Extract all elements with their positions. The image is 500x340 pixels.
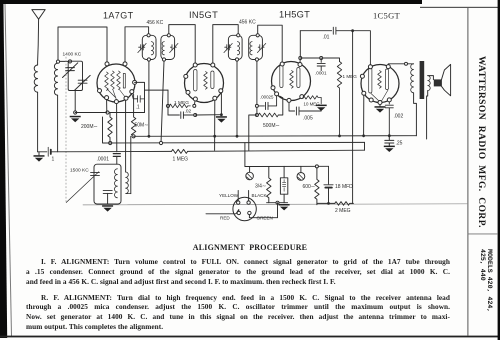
junction cathode ground: [220, 113, 223, 116]
pin 1A7 bottom right: [124, 96, 128, 100]
pin can2 top: [167, 34, 170, 37]
wire can2 bottom to bus2: [161, 61, 164, 143]
capacitor .1 AVC: [132, 94, 145, 103]
wire secondary return: [427, 91, 428, 139]
pin plug red: [237, 211, 240, 214]
speaker cone: [441, 64, 450, 95]
pin 1H5 plate top: [298, 63, 302, 67]
border: top thin line right: [420, 7, 500, 8]
pin 1A7 bottom center: [114, 100, 118, 104]
svg-text:10 MEG: 10 MEG: [304, 102, 321, 107]
pin plug yellow: [237, 201, 240, 204]
battery A cell: [47, 147, 49, 156]
junction .002 bus1: [388, 134, 391, 137]
wire 1C5 plate to output transformer: [388, 63, 413, 66]
junction can1 bus1: [148, 135, 151, 138]
inductor in can3: [237, 42, 239, 55]
svg-text:18 MFD: 18 MFD: [335, 184, 353, 190]
pin 1C5 bottom center: [378, 101, 382, 105]
grid slot inside 1C5: [369, 68, 372, 93]
variable capacitor antenna tuning: [66, 67, 75, 69]
inductor oscillator feedback winding: [126, 172, 131, 194]
node can2 bottom on bus2: [159, 141, 162, 144]
tube 1A7GT envelope: [97, 64, 135, 102]
border: bottom line: [0, 336, 500, 338]
svg-text:456 KC: 456 KC: [147, 20, 164, 26]
junction can3 bus1: [236, 135, 239, 138]
capacitor .00025 detector coupling: [258, 96, 276, 110]
wire 1H5 plate riser: [299, 31, 301, 63]
pin plug green: [248, 211, 251, 214]
resistor 1MEG grid 1N5: [170, 104, 191, 108]
wire L1 bottom to battery bus: [37, 92, 39, 152]
pin 1A7 bottom left: [105, 96, 109, 100]
node loop coil top terminal: [56, 60, 59, 63]
wire bus3 battery line: [51, 150, 172, 152]
inductor oscillator tank winding: [115, 169, 118, 198]
capacitor .0001 plate bypass: [317, 58, 325, 71]
pin can2 bottom: [162, 58, 165, 61]
capacitor padder in osc box: [103, 191, 112, 194]
capacitor trimmer in can1: [139, 45, 145, 50]
wire 1N5 pin to ground node: [220, 92, 222, 115]
IF transformer can 4: [249, 35, 263, 59]
wire feedback winding return to bus1: [130, 136, 132, 193]
wire bus3 right: [188, 150, 365, 151]
node trimmer box input terminal: [68, 60, 71, 63]
svg-text:1 MEG: 1 MEG: [173, 157, 189, 163]
node 1MEG right terminal: [193, 104, 196, 107]
ground 10MEG return: [316, 105, 327, 111]
grid zigzag inside 1C5: [378, 71, 382, 89]
ground oscillator box: [102, 205, 113, 211]
wire cathode return to ground: [195, 114, 221, 116]
wire red lead: [206, 210, 239, 214]
wire can1 bottom to bus1: [148, 61, 150, 136]
wire 1A7 bottom left pin to return: [106, 100, 108, 113]
svg-text:200M∼: 200M∼: [81, 124, 98, 130]
svg-text:GREEN: GREEN: [257, 216, 273, 221]
pin 1A7 left: [98, 89, 102, 93]
pin can3 top: [237, 34, 240, 37]
junction 18MFD rail B: [327, 202, 330, 205]
capacitor .005 audio bypass: [289, 102, 321, 115]
wire 1A7 plate to IF1 primary: [125, 27, 149, 62]
wire AVC feed to 1MEG network: [145, 89, 169, 91]
pin 1A7 right lower: [130, 90, 134, 94]
oscillator coil box: [94, 164, 121, 204]
grid zigzag inside 1N5: [204, 72, 208, 90]
wire gang link diagonal to 1500KC trimmer: [66, 172, 99, 203]
pin 1C5 left: [360, 74, 364, 78]
pin plug black: [247, 201, 250, 204]
IF transformer can 3: [228, 35, 242, 59]
wire plate load rail: [300, 58, 339, 62]
node 50M bottom bus1 end: [132, 135, 135, 138]
resistor 600 ohm: [315, 168, 319, 205]
cathode leads inside 1C5: [371, 90, 388, 101]
border: sidebar divider vertical: [467, 7, 468, 336]
cathode leads inside 1A7: [107, 89, 126, 100]
pin 1N5 left: [184, 74, 188, 78]
resistor 50M cathode: [131, 94, 135, 136]
node output transformer terminal: [405, 62, 408, 65]
pin 1N5 grid top: [193, 63, 197, 67]
wire battery bus left: [38, 151, 47, 153]
capacitor .0001 oscillator grid: [113, 154, 120, 157]
pin 1C5 grid top: [368, 65, 372, 69]
wire AVC bracket: [135, 82, 145, 112]
inductor in can1: [151, 42, 153, 55]
wire black lead: [248, 191, 250, 201]
pin 1H5 bottom right: [300, 95, 304, 99]
inductor L1 antenna coil: [34, 65, 37, 92]
wire trimmer arrow antenna: [63, 63, 78, 78]
pin 1H5 grid top: [280, 62, 284, 66]
wire grid return horizontal: [75, 112, 144, 114]
ground 1N5 cathode: [216, 116, 227, 122]
pin 1N5 plate top: [211, 63, 215, 67]
wire box bottom stem: [74, 91, 76, 113]
ballast tube: [280, 178, 287, 194]
junction 1N5 return bus1: [213, 135, 216, 138]
wire volume control arm drop: [249, 115, 257, 150]
pin 1N5 right: [219, 89, 223, 93]
inductor output transformer secondary: [428, 76, 431, 91]
inductor output transformer primary: [411, 64, 414, 93]
svg-text:3/4∼: 3/4∼: [255, 184, 266, 190]
capacitor trimmer in can2: [170, 45, 176, 50]
wire 1C5 grid return long vertical: [352, 31, 354, 204]
wire can3 bottom to bus1: [236, 61, 238, 136]
border: left black bar: [0, 0, 7, 338]
node 600 ohm top terminal: [315, 165, 318, 168]
wire rail B right segment: [317, 202, 335, 204]
capacitor .002 plate bypass: [385, 102, 393, 136]
node box stem junction: [74, 111, 77, 114]
wire audio coupling rail: [300, 30, 331, 32]
wire primary return to bus1: [414, 93, 417, 136]
resistor 3/4 ohm: [267, 167, 271, 203]
ground 1C5 center pin: [379, 105, 381, 107]
pin 1N5 bottom left: [193, 97, 197, 101]
node .0001 tap: [320, 57, 323, 60]
node detector tap: [255, 104, 258, 107]
tube 1H5GT envelope: [272, 62, 311, 101]
pin 1H5 bottom center: [287, 98, 291, 102]
svg-text:1: 1: [52, 157, 55, 163]
antenna: [32, 10, 45, 20]
svg-text:YELLOW: YELLOW: [219, 193, 239, 198]
svg-text:.1: .1: [136, 105, 140, 111]
wire volume control right to cathode: [278, 96, 282, 115]
resistor 2MEG grid leak: [335, 202, 354, 206]
wire AVC drop: [167, 90, 169, 115]
cathode slot inside 1N5: [194, 70, 197, 92]
wire gang link dotted: [65, 57, 67, 202]
pin can4 bottom: [255, 58, 258, 61]
pin 1C5 plate top: [386, 65, 390, 69]
svg-text:.005: .005: [303, 116, 313, 122]
IF transformer can 1: [142, 35, 156, 59]
node grid return junction: [106, 111, 109, 114]
wire green lead: [249, 203, 277, 218]
wire filament rail A: [245, 165, 329, 167]
pin 1A7 grid top: [105, 62, 109, 66]
resistor 1MEG series in bus3: [172, 149, 188, 153]
grid structure inside 1A7: [105, 72, 109, 90]
ground .25: [384, 146, 395, 152]
grid zigzag inside 1H5: [290, 71, 294, 89]
capacitor 18MFD electrolytic: [324, 166, 333, 185]
wire can4 bottom to detector tap: [256, 61, 258, 115]
pin 1H5 diode left: [271, 86, 275, 90]
svg-text:RED: RED: [220, 216, 230, 221]
title: alignment procedure heading: [185, 243, 315, 252]
sidebar: company name: [476, 56, 486, 228]
svg-text:.0001: .0001: [97, 157, 110, 163]
tuning condenser box: [68, 61, 82, 90]
resistor 1MEG plate load: [337, 62, 341, 137]
svg-text:.002: .002: [394, 114, 404, 120]
junction 1C5 filament bus1: [362, 134, 365, 137]
capacitor trimmer in can4: [258, 45, 264, 50]
svg-text:.00025: .00025: [260, 95, 274, 100]
wire rail A feed from bus2: [244, 143, 246, 167]
wire L2 top to trimmer box: [60, 60, 69, 62]
svg-text:600∼: 600∼: [303, 184, 316, 190]
wire 1A7 osc anode pin down to feedback coil: [125, 100, 127, 172]
wire bus2: [103, 117, 365, 143]
capacitor .25 filament bypass: [385, 137, 394, 145]
inductor L2 loop antenna coil: [54, 63, 57, 95]
ground battery return: [34, 155, 45, 161]
node 1H5 plate terminal: [299, 57, 302, 60]
pin can3 bottom: [235, 58, 238, 61]
pin 1N5 bottom right: [213, 96, 217, 100]
plate slot inside 1C5: [385, 69, 388, 90]
svg-text:IN5GT: IN5GT: [189, 10, 218, 20]
inductor in can2: [162, 42, 164, 55]
svg-text:1H5GT: 1H5GT: [279, 10, 310, 20]
potentiometer 500M volume control: [258, 113, 278, 117]
IF transformer can 2: [161, 35, 175, 59]
svg-text:BLACK: BLACK: [252, 193, 268, 198]
pin 1C5 bottom left2: [369, 98, 373, 102]
svg-text:1C5GT: 1C5GT: [373, 11, 401, 21]
svg-text:1A7GT: 1A7GT: [103, 11, 134, 21]
capacitor trimmer in can3: [225, 45, 231, 50]
svg-text:.01: .01: [323, 35, 330, 41]
junction 1MEG bottom bus1: [338, 135, 341, 138]
wire secondary to voice coil: [428, 76, 434, 80]
wire 1A7 grid1 pin down to osc cap: [116, 104, 118, 152]
pin can1 bottom: [147, 58, 150, 61]
svg-text:.02: .02: [185, 109, 192, 115]
svg-text:.0001: .0001: [315, 71, 327, 76]
paragraph: I.F. alignment instructions: [26, 257, 450, 287]
svg-text:50M∼: 50M∼: [135, 123, 149, 129]
node .02 right terminal: [194, 114, 197, 117]
plate slot inside 1N5: [211, 71, 214, 89]
border: left inner line: [5, 4, 12, 336]
border: sidebar divider horizontal: [467, 233, 498, 236]
junction .01 to grid line: [351, 29, 354, 32]
capacitor .01 audio coupling: [333, 27, 370, 64]
node green riser junction: [276, 201, 279, 204]
speaker voice coil: [434, 79, 442, 86]
pin 1A7 right: [133, 80, 137, 84]
wire loop coil riser to grid rail: [58, 27, 107, 62]
variable capacitor 1500KC trimmer: [91, 173, 100, 176]
svg-text:1 MEG: 1 MEG: [343, 74, 358, 79]
wire can2 top to 1N5 grid: [169, 25, 195, 64]
inductor in can4: [250, 42, 252, 55]
wire 1N5 plate return to bus: [214, 100, 216, 150]
wire bus1: [134, 135, 417, 138]
svg-text:1500 KC: 1500 KC: [70, 168, 89, 174]
pin 1A7 plate top: [123, 62, 127, 66]
paragraph: R.F. alignment instructions: [26, 293, 450, 333]
svg-text:1 MEG: 1 MEG: [174, 100, 189, 106]
resistor 10MEG diode load: [303, 96, 321, 104]
variable capacitor oscillator tuning: [78, 79, 87, 81]
wire 1N5 plate to IF2 primary: [213, 25, 238, 63]
wire bus2 to bus3 tie: [364, 142, 366, 150]
pin 1H5 diode lower: [275, 92, 279, 96]
svg-text:500M∼: 500M∼: [263, 123, 280, 129]
diode plate slot inside 1H5: [280, 65, 283, 88]
pin can4 top: [256, 34, 259, 37]
plate slot inside 1H5: [297, 68, 300, 88]
node 1MEG AVC tap: [166, 104, 169, 107]
svg-text:1400 KC: 1400 KC: [63, 52, 82, 58]
tube 1C5GT envelope: [361, 65, 399, 103]
ground filament return: [279, 204, 290, 210]
wire 1C5 filament to bus1: [363, 95, 365, 136]
wire can4 top to 1H5 grid: [258, 25, 283, 63]
transformer core: [420, 61, 425, 99]
pin 1C5 bottom left: [362, 91, 366, 95]
wire trimmer arrow oscillator section: [75, 75, 90, 90]
pin 1N5 lower left: [186, 90, 190, 94]
svg-text:2 MEG: 2 MEG: [335, 208, 351, 214]
wire filament return rail B: [267, 202, 288, 204]
pin 1C5 bottom right: [387, 98, 391, 102]
resistor 200M grid leak: [108, 113, 112, 142]
power plug: [233, 197, 256, 220]
plate bar inside 1A7: [123, 74, 125, 89]
wire B minus long bottom line: [83, 204, 467, 205]
wire L2 bottom down: [57, 95, 59, 152]
wire antenna lead down: [38, 19, 39, 65]
wire 1MEG to 1N5 grid pin: [193, 101, 196, 106]
sidebar: model numbers: [479, 249, 493, 312]
ground below trimmer box: [70, 116, 81, 122]
pilot lamp 2: [300, 166, 302, 172]
capacitor .02: [168, 112, 194, 119]
svg-text:456 KC: 456 KC: [239, 20, 256, 26]
pilot lamp 1: [249, 167, 251, 173]
wire yellow lead: [237, 191, 239, 201]
node volume control left terminal: [255, 114, 258, 117]
pin can1 top: [147, 34, 150, 37]
tube 1N5GT envelope: [185, 64, 224, 103]
node 200M bottom on bus2: [109, 141, 112, 144]
border: top black bar: [0, 0, 422, 4]
svg-text:.25: .25: [396, 141, 403, 147]
border: right black edge: [498, 0, 500, 340]
